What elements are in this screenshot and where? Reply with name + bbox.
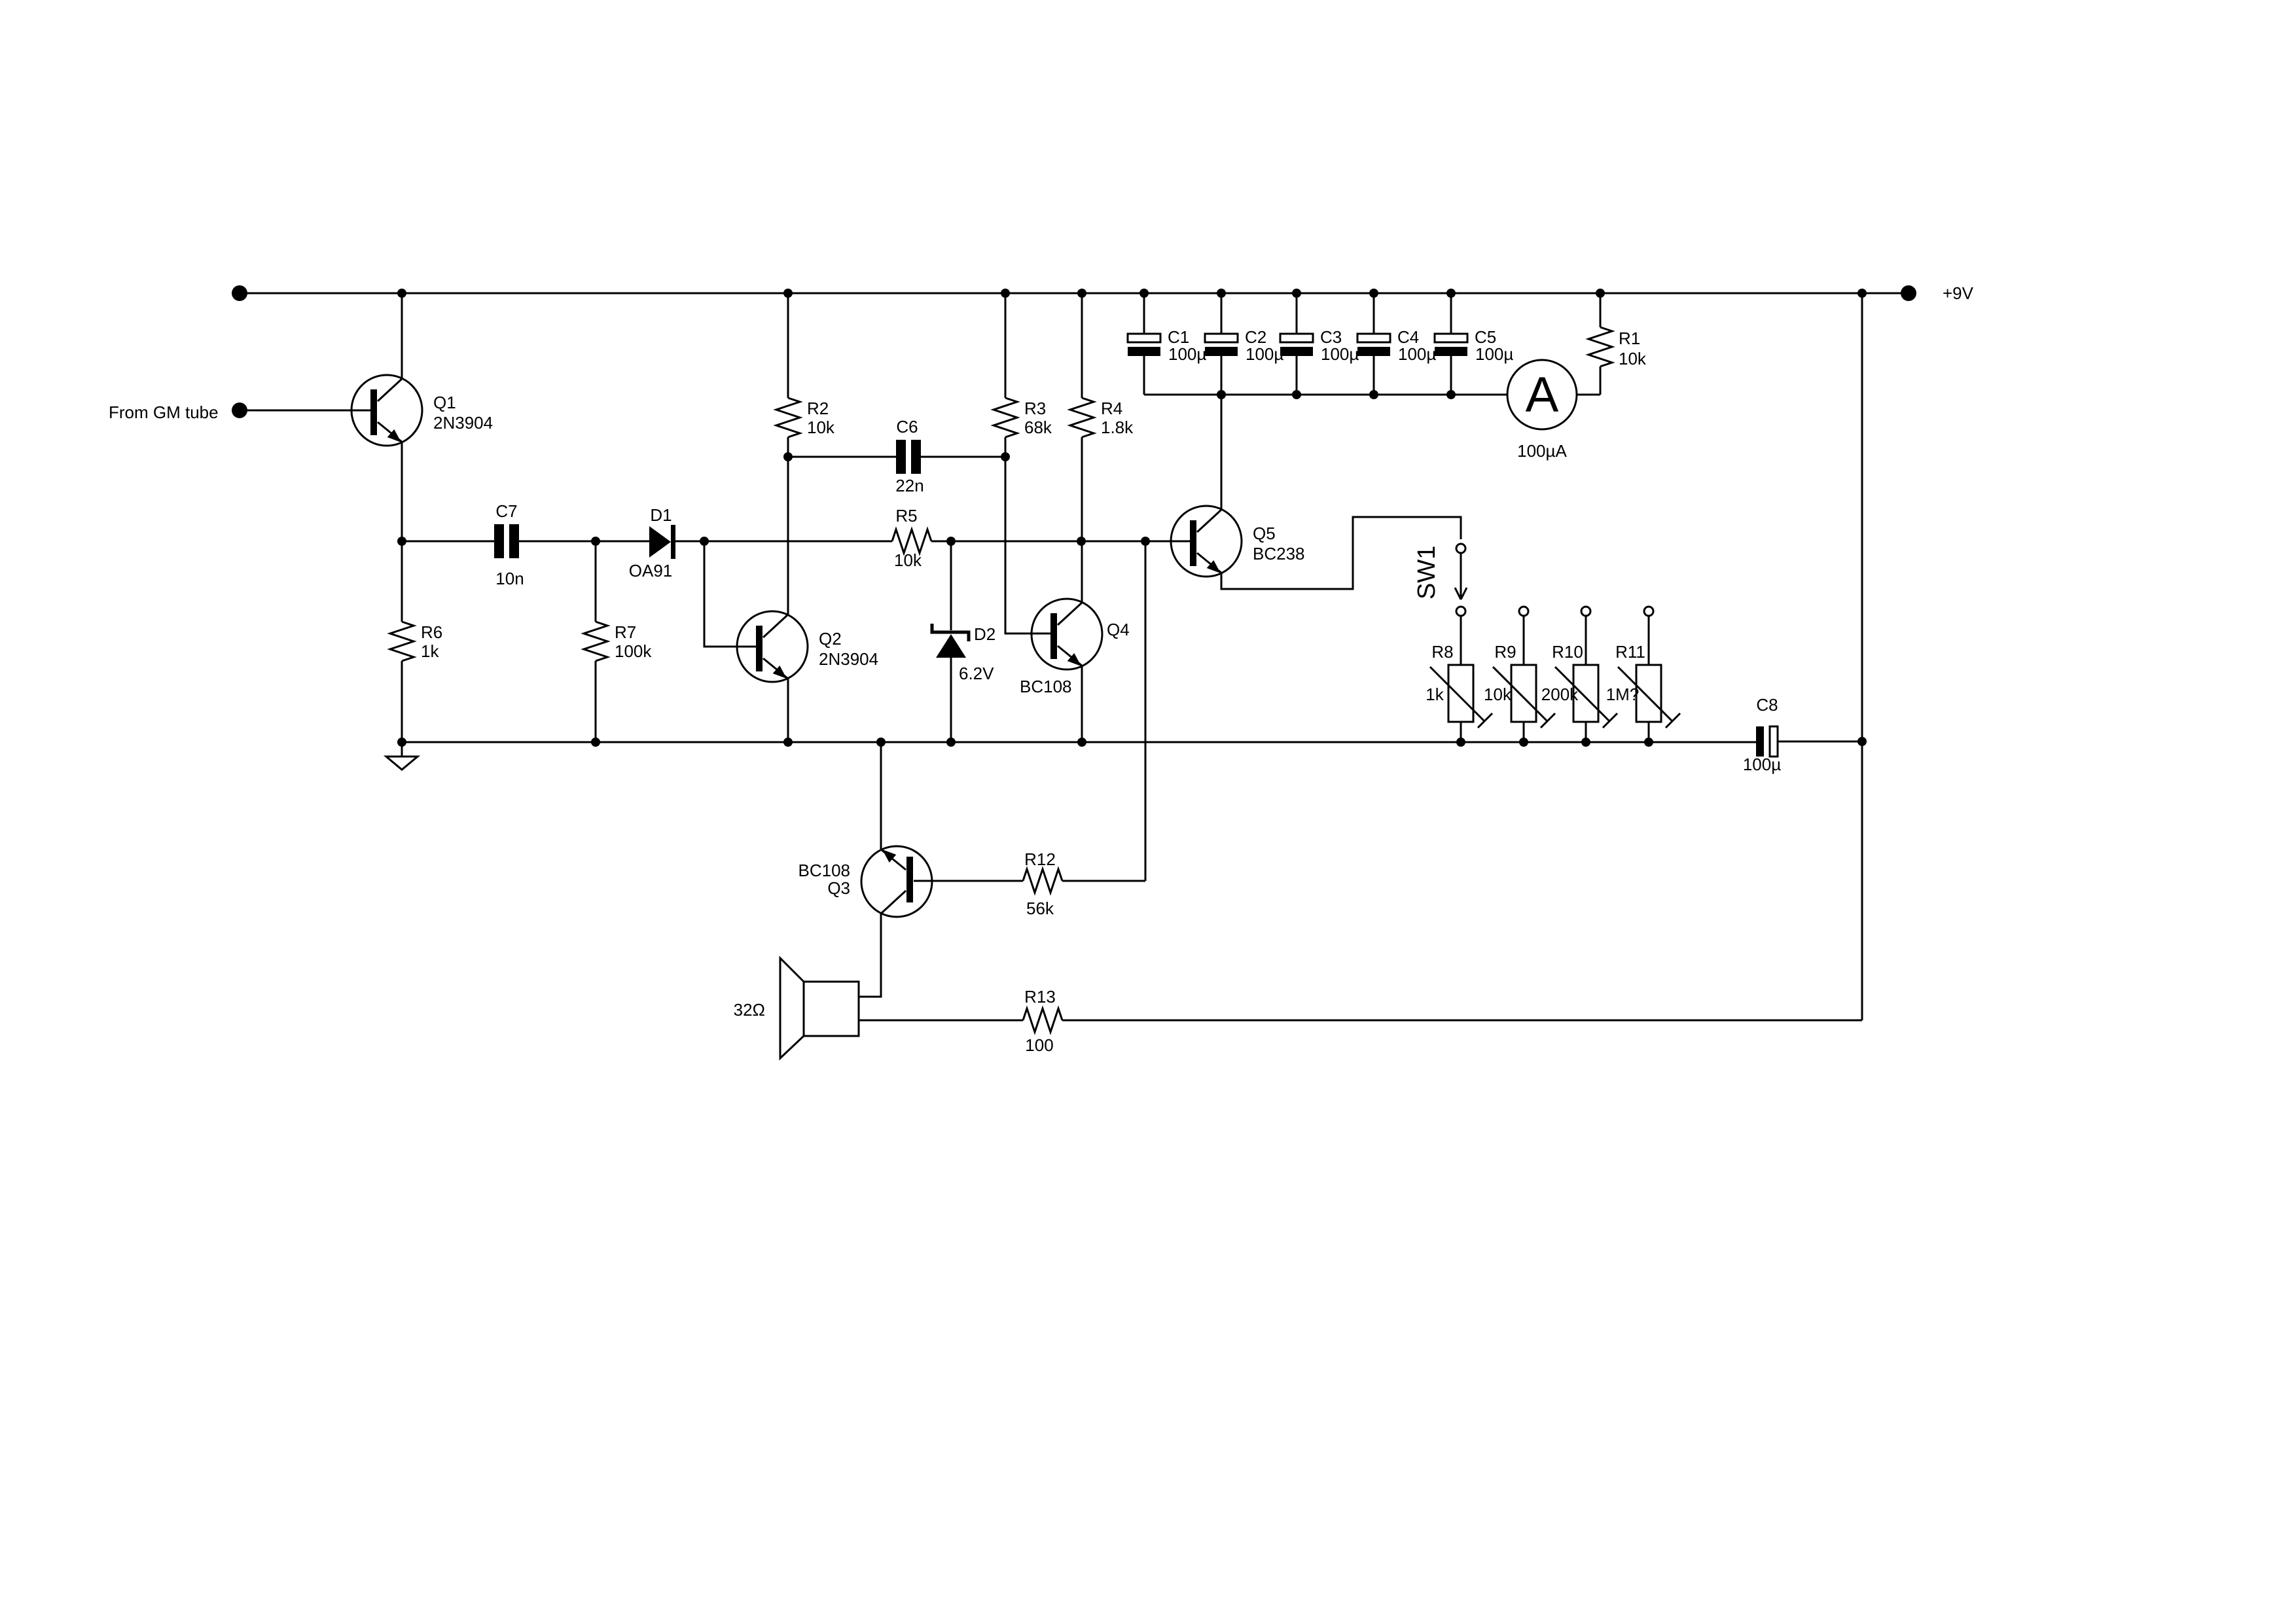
svg-text:68k: 68k bbox=[1024, 418, 1052, 437]
svg-text:R12: R12 bbox=[1024, 849, 1056, 869]
svg-text:10k: 10k bbox=[1484, 685, 1512, 704]
svg-text:R8: R8 bbox=[1431, 642, 1453, 662]
svg-text:100µ: 100µ bbox=[1168, 344, 1206, 364]
svg-text:OA91: OA91 bbox=[629, 561, 673, 580]
svg-text:1k: 1k bbox=[421, 641, 439, 661]
svg-text:Q4: Q4 bbox=[1107, 620, 1130, 639]
svg-text:D2: D2 bbox=[974, 624, 996, 644]
svg-text:D1: D1 bbox=[650, 505, 672, 525]
svg-text:BC238: BC238 bbox=[1253, 544, 1305, 563]
svg-text:C7: C7 bbox=[495, 501, 517, 521]
svg-text:R10: R10 bbox=[1552, 642, 1583, 662]
svg-text:From GM tube: From GM tube bbox=[109, 402, 219, 422]
svg-text:100µ: 100µ bbox=[1398, 344, 1436, 364]
svg-text:R7: R7 bbox=[615, 622, 636, 642]
svg-text:22n: 22n bbox=[895, 476, 924, 495]
svg-text:SW1: SW1 bbox=[1413, 546, 1441, 599]
svg-text:10k: 10k bbox=[894, 550, 922, 570]
svg-text:R5: R5 bbox=[895, 506, 917, 526]
svg-text:10n: 10n bbox=[495, 569, 524, 588]
svg-text:10k: 10k bbox=[1619, 349, 1647, 368]
svg-text:+9V: +9V bbox=[1943, 283, 1974, 303]
svg-text:Q2: Q2 bbox=[819, 629, 842, 649]
svg-text:2N3904: 2N3904 bbox=[819, 649, 878, 669]
svg-text:BC108: BC108 bbox=[798, 861, 851, 880]
svg-text:1k: 1k bbox=[1426, 685, 1444, 704]
svg-text:Q1: Q1 bbox=[433, 393, 456, 412]
svg-text:C8: C8 bbox=[1756, 695, 1778, 715]
svg-text:BC108: BC108 bbox=[1020, 677, 1072, 696]
svg-text:R1: R1 bbox=[1619, 329, 1640, 348]
svg-text:200k: 200k bbox=[1541, 685, 1579, 704]
svg-text:R6: R6 bbox=[421, 622, 442, 642]
svg-text:Q5: Q5 bbox=[1253, 524, 1276, 543]
svg-text:R9: R9 bbox=[1494, 642, 1516, 662]
svg-text:A: A bbox=[1526, 367, 1559, 423]
svg-text:R13: R13 bbox=[1024, 987, 1056, 1007]
svg-text:Q3: Q3 bbox=[827, 878, 850, 898]
svg-text:R4: R4 bbox=[1101, 399, 1122, 418]
svg-text:100µ: 100µ bbox=[1246, 344, 1283, 364]
svg-text:100k: 100k bbox=[615, 641, 652, 661]
svg-text:100µ: 100µ bbox=[1743, 755, 1781, 774]
svg-text:56k: 56k bbox=[1026, 899, 1054, 918]
svg-text:R11: R11 bbox=[1615, 642, 1645, 662]
svg-text:100: 100 bbox=[1025, 1035, 1053, 1055]
svg-text:1.8k: 1.8k bbox=[1101, 418, 1134, 437]
svg-text:C6: C6 bbox=[896, 417, 918, 437]
svg-text:10k: 10k bbox=[807, 418, 835, 437]
svg-text:1M?: 1M? bbox=[1606, 685, 1640, 704]
svg-text:6.2V: 6.2V bbox=[959, 664, 994, 683]
svg-text:100µ: 100µ bbox=[1321, 344, 1359, 364]
svg-text:100µ: 100µ bbox=[1475, 344, 1513, 364]
svg-text:100µA: 100µA bbox=[1517, 441, 1567, 461]
svg-text:R2: R2 bbox=[807, 399, 829, 418]
svg-text:32Ω: 32Ω bbox=[734, 1000, 765, 1020]
svg-text:2N3904: 2N3904 bbox=[433, 413, 493, 433]
svg-text:R3: R3 bbox=[1024, 399, 1046, 418]
